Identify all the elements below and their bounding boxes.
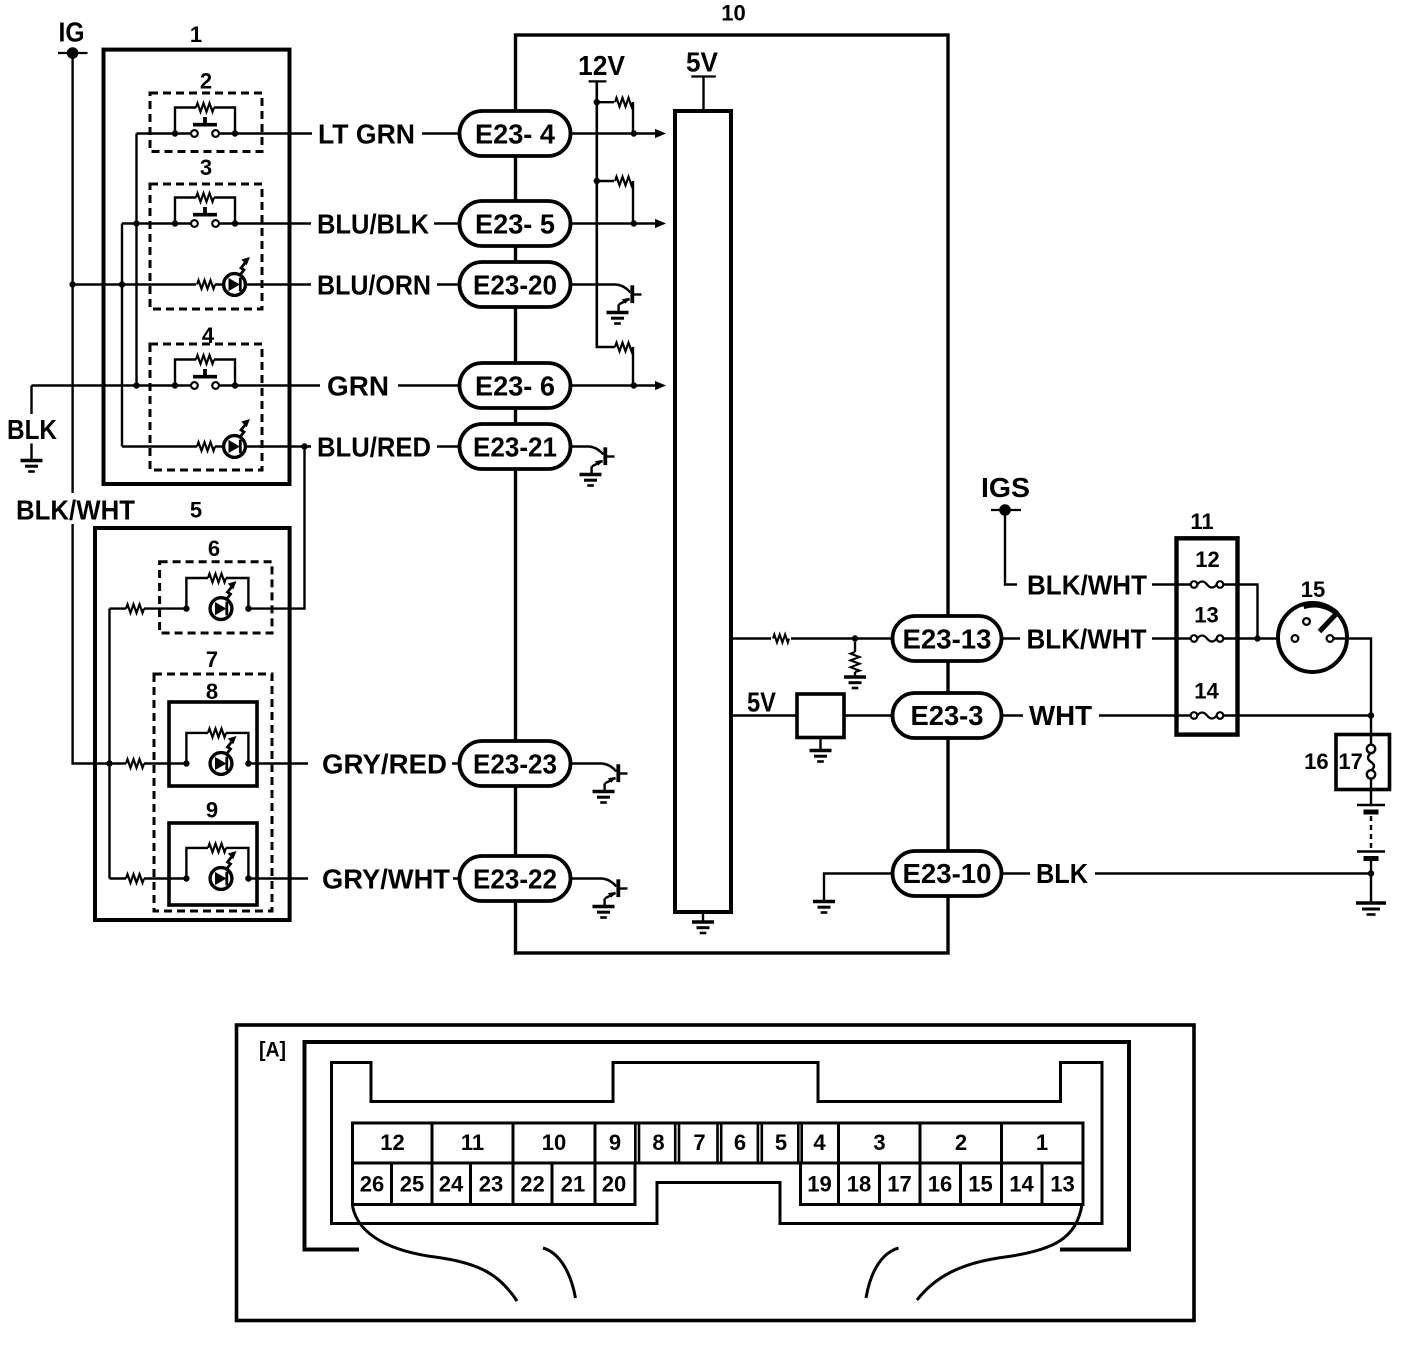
node battery BLK junction — [1368, 870, 1374, 876]
svg-text:E23-23: E23-23 — [473, 749, 557, 780]
wire 5V row — [731, 714, 893, 716]
svg-text:BLU/ORN: BLU/ORN — [317, 270, 431, 301]
diode clamp E23-23 — [593, 764, 628, 803]
resistor pull-up row1 — [597, 98, 633, 134]
wire E23-4 to ECU — [571, 132, 635, 134]
svg-text:3: 3 — [200, 155, 212, 180]
wire BLU/BLK row — [122, 222, 460, 224]
wire E23-13 row inside ECU — [731, 637, 893, 639]
connector pin E23-20 — [460, 262, 571, 307]
wire GRY/WHT row — [110, 877, 460, 879]
arrow row2 input — [634, 219, 666, 228]
resistor E23-13 series — [773, 635, 789, 643]
resistor pulldown vertical — [851, 642, 860, 677]
fuse box 11 — [1177, 538, 1238, 734]
label 15 — [1301, 577, 1325, 602]
ground pulldown — [844, 677, 866, 688]
wire fuse14 to battery column — [1224, 714, 1372, 716]
connector pin E23-13 — [893, 616, 1002, 661]
svg-text:18: 18 — [847, 1172, 871, 1197]
wire GRY/RED row — [110, 762, 460, 764]
pin numbers row 2 — [360, 1172, 1075, 1197]
svg-text:15: 15 — [1301, 577, 1325, 602]
label 5V top — [686, 47, 718, 78]
fuse 13 — [1191, 635, 1224, 642]
wire E23-20 to clamp — [571, 283, 617, 285]
svg-text:12: 12 — [380, 1130, 404, 1155]
wire IG rail vertical — [73, 53, 110, 764]
svg-text:BLU/RED: BLU/RED — [317, 432, 431, 463]
svg-text:9: 9 — [609, 1130, 621, 1155]
connector pin E23-4 — [460, 111, 571, 156]
dashed box switch 2 — [150, 93, 262, 152]
label 10 — [721, 1, 745, 26]
connector pin E23-21 — [460, 424, 571, 469]
svg-text:4: 4 — [813, 1130, 826, 1155]
svg-text:21: 21 — [561, 1172, 585, 1197]
wire switch to battery — [1370, 779, 1372, 805]
node D junction GRY/RED row — [106, 760, 112, 766]
resistor box 9 series — [126, 874, 144, 883]
label 4 — [202, 323, 215, 348]
svg-text:11: 11 — [1190, 509, 1213, 534]
svg-text:E23-20: E23-20 — [473, 270, 557, 301]
svg-text:25: 25 — [400, 1172, 424, 1197]
wire GRN row — [32, 384, 460, 386]
dashed box 7 — [154, 674, 272, 911]
label BLK left — [7, 414, 57, 445]
resistor pull-up row2 — [597, 177, 633, 224]
node fuse12/13 junction — [1254, 635, 1260, 641]
label 6 — [208, 536, 220, 561]
5V supply stub — [691, 77, 716, 112]
wire E23-21 to clamp — [571, 445, 590, 447]
label BLK/WHT fuse12 row — [1027, 570, 1147, 601]
label 9 — [206, 798, 218, 823]
label IG — [59, 17, 85, 48]
node junction IG rail / BLU-ORN row — [69, 281, 75, 287]
svg-text:17: 17 — [1338, 749, 1362, 774]
node 12V rail taps — [594, 99, 600, 184]
node row4 tap — [631, 382, 637, 388]
arrow row1 input — [634, 129, 666, 138]
svg-text:BLK: BLK — [7, 414, 57, 445]
svg-text:E23-3: E23-3 — [911, 700, 984, 731]
LED illumination switch 3 — [224, 257, 250, 295]
svg-text:19: 19 — [807, 1172, 831, 1197]
label 2 — [200, 69, 212, 94]
wire E23-13 to text — [1002, 637, 1191, 639]
svg-text:BLK/WHT: BLK/WHT — [1027, 624, 1147, 655]
resistor LED 4 series — [197, 442, 215, 451]
pushbutton switch 4 — [172, 355, 238, 389]
wire vertical C from BLU/RED to box 6 — [248, 447, 304, 609]
wire E23-23 to clamp — [571, 762, 603, 764]
svg-text:11: 11 — [461, 1130, 484, 1155]
pin row 2 left block cells 26-20 — [353, 1163, 636, 1205]
diode clamp E23-20 — [607, 285, 642, 324]
svg-text:E23- 6: E23- 6 — [475, 371, 555, 402]
svg-text:8: 8 — [652, 1130, 664, 1155]
wire E23-6 to ECU — [571, 384, 635, 386]
svg-text:WHT: WHT — [1029, 700, 1092, 731]
connector pin E23-10 — [893, 851, 1002, 896]
node E23-13 pulldown junction — [852, 635, 858, 641]
svg-text:E23- 5: E23- 5 — [475, 209, 555, 240]
label 8 — [206, 679, 218, 704]
svg-text:10: 10 — [721, 1, 745, 26]
svg-text:E23-21: E23-21 — [473, 432, 557, 463]
pushbutton switch 2 — [172, 103, 238, 137]
node WHT junction — [1368, 712, 1374, 718]
wire bundle curve left big — [353, 1206, 518, 1301]
label 11 — [1190, 509, 1213, 534]
label 7 — [206, 647, 218, 672]
svg-text:10: 10 — [542, 1130, 566, 1155]
label 1 — [190, 22, 202, 47]
wire E23-5 to ECU — [571, 222, 635, 224]
regulator square — [797, 694, 844, 738]
svg-text:12: 12 — [1195, 547, 1219, 572]
svg-text:9: 9 — [206, 798, 218, 823]
wire vertical B inside box 1 — [121, 224, 123, 447]
arrow row4 input — [634, 381, 666, 390]
node B junction BLU/ORN — [119, 281, 125, 287]
svg-text:26: 26 — [360, 1172, 384, 1197]
label [A] — [259, 1039, 286, 1062]
wire bundle curve right small — [866, 1248, 899, 1298]
ECU box 10 — [516, 35, 949, 953]
wire down to switch 17 — [1370, 716, 1372, 745]
label 5 — [190, 498, 202, 523]
svg-text:3: 3 — [873, 1130, 885, 1155]
svg-text:14: 14 — [1194, 679, 1219, 704]
connector pin E23-22 — [460, 856, 571, 901]
wire bundle curve left small — [543, 1248, 576, 1298]
svg-text:LT GRN: LT GRN — [318, 119, 415, 150]
svg-text:8: 8 — [206, 679, 218, 704]
frame — [237, 1025, 1195, 1321]
box LED 8 — [169, 702, 257, 786]
label 13 fuse — [1194, 603, 1218, 628]
pushbutton switch 3 — [172, 193, 238, 227]
diode clamp E23-21 — [580, 447, 615, 486]
fuse 12 — [1191, 581, 1224, 588]
ground battery — [1356, 903, 1386, 915]
label GRY/WHT — [322, 864, 450, 895]
ground BLK — [21, 444, 43, 472]
label GRN — [327, 371, 389, 402]
svg-text:13: 13 — [1194, 603, 1218, 628]
pin row 2 right block cells 19-13 — [801, 1163, 1084, 1205]
svg-text:16: 16 — [928, 1172, 952, 1197]
svg-text:E23- 4: E23- 4 — [475, 119, 555, 150]
svg-text:GRY/WHT: GRY/WHT — [322, 864, 450, 895]
LED 8 with bypass resistor — [183, 729, 251, 775]
wire fuse12 to junction — [1224, 585, 1258, 639]
ignition switch 15 — [1278, 603, 1347, 672]
label BLU/ORN — [317, 270, 431, 301]
svg-text:GRN: GRN — [327, 371, 389, 402]
svg-text:6: 6 — [734, 1130, 746, 1155]
label GRY/RED — [322, 749, 447, 780]
resistor box 6 series — [126, 604, 144, 613]
svg-text:GRY/RED: GRY/RED — [322, 749, 447, 780]
svg-text:15: 15 — [968, 1172, 992, 1197]
connector shell inner profile — [332, 1063, 1103, 1224]
wire relay to battery column — [1334, 639, 1372, 716]
wire E23-10 BLK row — [1002, 872, 1372, 874]
label 16 — [1304, 749, 1328, 774]
LED 6 with bypass resistor — [183, 574, 251, 620]
microprocessor tall box — [675, 111, 731, 912]
svg-text:13: 13 — [1050, 1172, 1074, 1197]
svg-text:5: 5 — [190, 498, 202, 523]
wire E23-10 left ground branch — [824, 874, 893, 902]
wire bundle curve right big — [917, 1205, 1082, 1300]
label BLU/RED — [317, 432, 431, 463]
svg-text:7: 7 — [693, 1130, 705, 1155]
label WHT — [1029, 700, 1092, 731]
svg-text:16: 16 — [1304, 749, 1328, 774]
ground E23-10 — [813, 902, 835, 913]
wire fuse13 to relay — [1224, 637, 1292, 639]
svg-text:12V: 12V — [578, 50, 625, 81]
svg-text:5V: 5V — [686, 47, 718, 78]
svg-text:BLK/WHT: BLK/WHT — [16, 495, 135, 526]
node A junctions — [133, 220, 139, 388]
label BLU/BLK — [317, 209, 429, 240]
resistor LED 3 series — [197, 280, 215, 289]
ground microprocessor — [692, 912, 714, 933]
svg-text:BLK: BLK — [1036, 858, 1088, 889]
connector pin E23-3 — [893, 693, 1002, 738]
node row2 tap — [631, 220, 637, 226]
wire BLU/ORN row — [73, 283, 460, 285]
wire LT GRN row — [137, 132, 460, 134]
svg-text:20: 20 — [602, 1172, 626, 1197]
wire vertical A inside box 1 — [135, 134, 137, 386]
label BLK/WHT fuse13 row — [1027, 624, 1147, 655]
svg-text:5: 5 — [775, 1130, 787, 1155]
wire BLU/RED row — [122, 445, 460, 447]
fuse 14 — [1191, 712, 1224, 719]
wire E23-22 to clamp — [571, 877, 603, 879]
dashed box LED 6 — [160, 562, 272, 633]
IGS power terminal — [991, 504, 1021, 516]
connector shell outer — [305, 1042, 1130, 1250]
label BLK right — [1036, 858, 1088, 889]
box 16 — [1336, 735, 1390, 790]
resistor box 8 series — [126, 759, 144, 768]
svg-text:7: 7 — [206, 647, 218, 672]
wire box 6 LED row — [110, 607, 187, 609]
svg-text:1: 1 — [1036, 1130, 1048, 1155]
label 12 fuse — [1195, 547, 1219, 572]
label IGS — [981, 472, 1030, 503]
LED illumination switch 4 — [224, 419, 250, 457]
svg-text:[A]: [A] — [259, 1039, 286, 1062]
svg-text:IGS: IGS — [981, 472, 1030, 503]
pin row 1 cells 12-1 — [353, 1123, 1084, 1163]
wire vertical D BLK/WHT feed — [108, 609, 110, 879]
svg-text:17: 17 — [887, 1172, 911, 1197]
svg-text:E23-22: E23-22 — [473, 864, 557, 895]
label 17 — [1338, 749, 1362, 774]
label 12V — [578, 50, 625, 81]
wire BLK ground stub — [30, 386, 32, 415]
svg-text:24: 24 — [439, 1172, 464, 1197]
wire IGS to fuse 12 — [1005, 510, 1191, 585]
svg-text:E23-13: E23-13 — [903, 624, 992, 655]
label BLK/WHT left — [16, 495, 135, 526]
node row1 tap — [631, 130, 637, 136]
label 5V mid — [747, 687, 776, 718]
dashed box switch 4 — [150, 344, 262, 470]
svg-text:E23-10: E23-10 — [903, 858, 992, 889]
node BLU/RED junction to box 6 — [301, 443, 307, 449]
illumination box 5 — [95, 528, 290, 920]
svg-text:BLU/BLK: BLU/BLK — [317, 209, 429, 240]
diode clamp E23-22 — [593, 879, 628, 918]
box LED 9 — [169, 823, 257, 905]
svg-text:4: 4 — [202, 323, 215, 348]
label 14 fuse — [1194, 679, 1219, 704]
svg-text:2: 2 — [955, 1130, 967, 1155]
connector pin E23-6 — [460, 363, 571, 408]
svg-text:2: 2 — [200, 69, 212, 94]
wire E23-3 to text — [1002, 714, 1191, 716]
12V rail — [589, 81, 615, 347]
connector pin E23-5 — [460, 201, 571, 246]
battery — [1357, 805, 1385, 902]
dashed box switch 3 — [150, 184, 262, 309]
ground regulator — [810, 738, 832, 762]
pin numbers row 1 — [380, 1130, 1048, 1155]
label 3 — [200, 155, 212, 180]
svg-text:5V: 5V — [747, 687, 776, 718]
label LT GRN — [318, 119, 415, 150]
svg-text:6: 6 — [208, 536, 220, 561]
svg-text:14: 14 — [1009, 1172, 1034, 1197]
connector pin E23-23 — [460, 741, 571, 786]
svg-text:1: 1 — [190, 22, 202, 47]
switch assembly box 1 — [104, 50, 290, 484]
resistor pull-up row4 — [615, 343, 633, 386]
svg-text:IG: IG — [59, 17, 85, 48]
svg-text:BLK/WHT: BLK/WHT — [1027, 570, 1147, 601]
svg-text:22: 22 — [520, 1172, 544, 1197]
LED 9 with bypass resistor — [183, 844, 251, 890]
svg-text:23: 23 — [479, 1172, 503, 1197]
switch 17 — [1367, 745, 1375, 779]
IG power terminal — [58, 47, 88, 59]
